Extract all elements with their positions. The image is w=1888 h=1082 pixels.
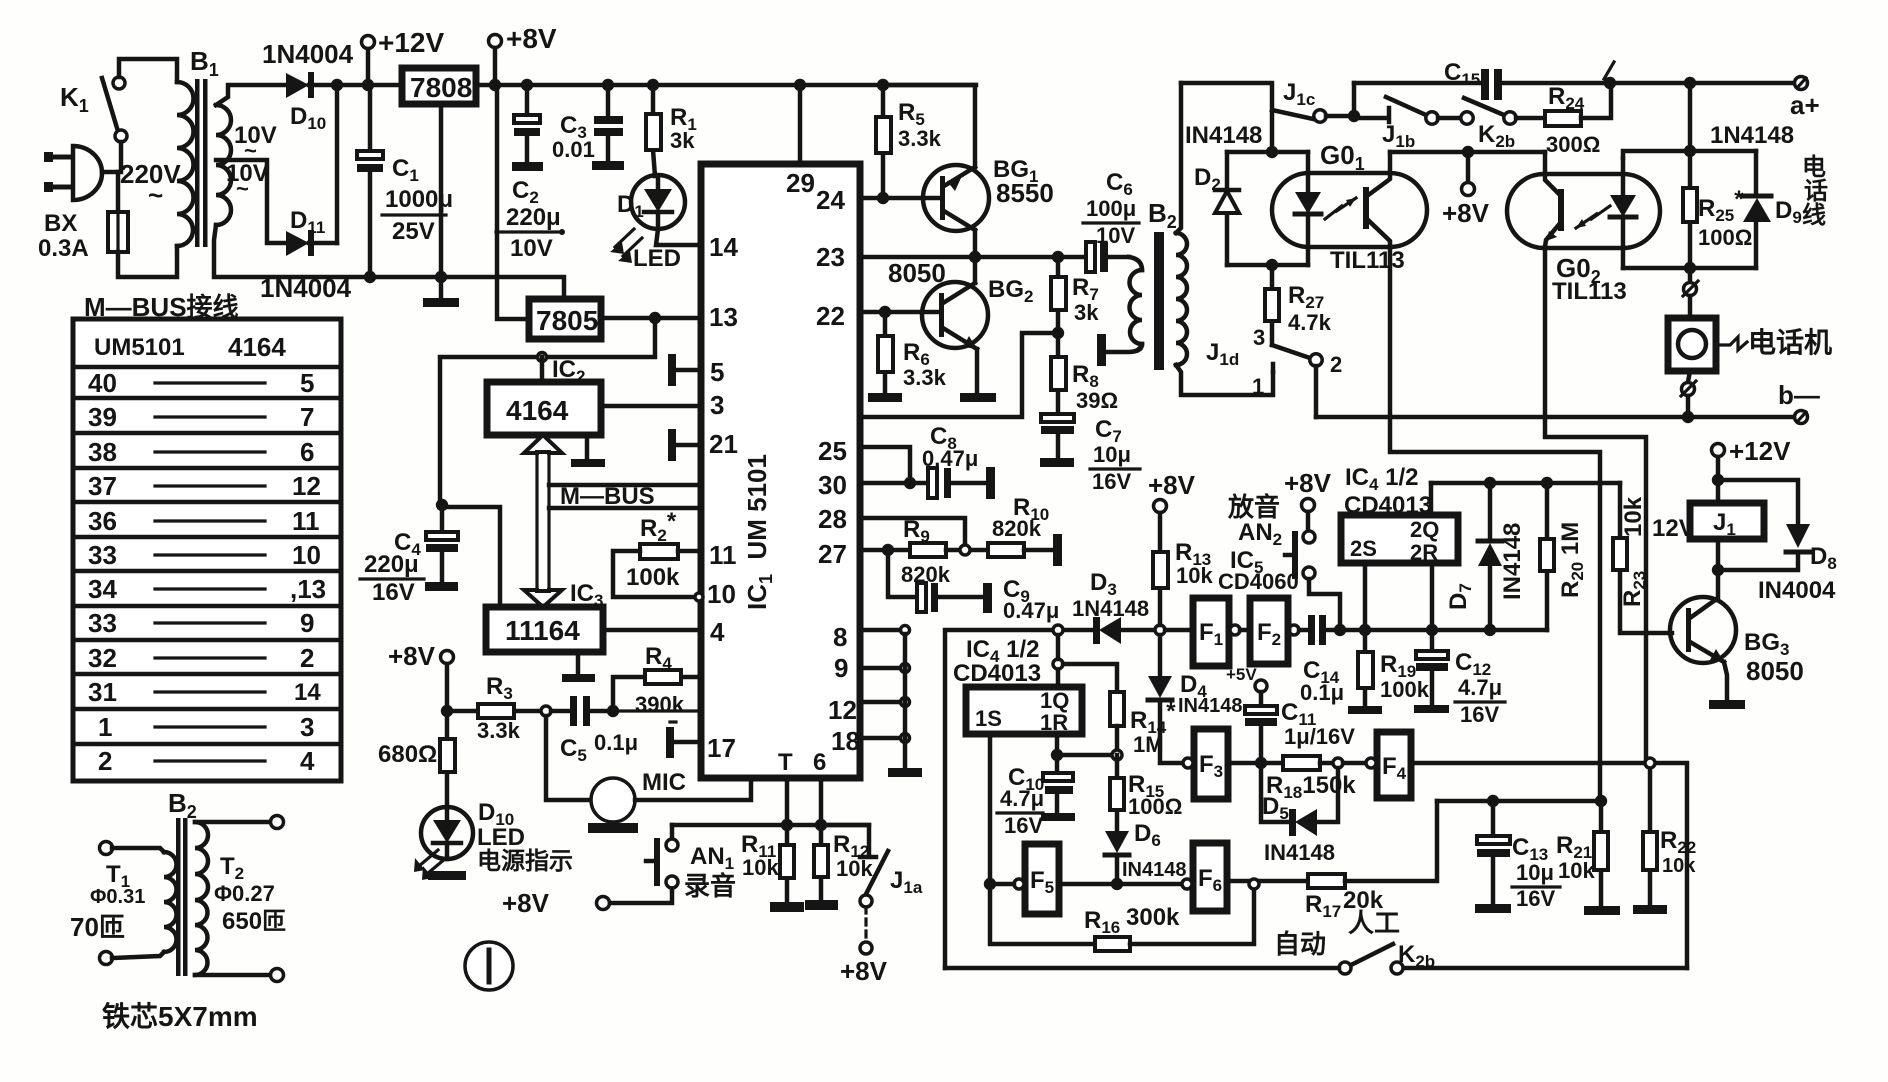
ground under 7808 bbox=[423, 104, 459, 307]
wire 1R pin down bbox=[1055, 734, 1060, 755]
svg-text:6: 6 bbox=[300, 437, 314, 467]
wire bottom rail left bbox=[945, 966, 1339, 971]
svg-text:3.3k: 3.3k bbox=[898, 126, 942, 151]
bypass bar pin 17 bbox=[666, 722, 701, 758]
svg-text:8: 8 bbox=[833, 622, 847, 652]
svg-text:32: 32 bbox=[88, 643, 117, 673]
wire R14 bottom to 1R bbox=[1057, 753, 1112, 758]
svg-text:100k: 100k bbox=[626, 564, 680, 591]
svg-text:IC4 1/2: IC4 1/2 bbox=[1345, 464, 1419, 494]
svg-text:IN4148: IN4148 bbox=[1122, 859, 1187, 881]
resistor R7 3k bbox=[1051, 257, 1099, 333]
wire D11 join D10 node bbox=[335, 85, 340, 243]
resistor R25* 100ohm bbox=[1683, 151, 1752, 268]
svg-text:人工: 人工 bbox=[1348, 908, 1400, 938]
wire 1Q to R14 bbox=[1063, 664, 1117, 692]
resistor R1 3k bbox=[646, 79, 697, 176]
transformer B1 bbox=[177, 46, 231, 247]
capacitor C15 bbox=[1444, 59, 1502, 100]
net M-BUS lower wire bbox=[549, 506, 701, 511]
resistor 680ohm bbox=[378, 711, 455, 808]
pushbutton AN2 play bbox=[1227, 468, 1332, 579]
diode D6 bbox=[1105, 820, 1187, 884]
resistor R2* 100k pins 11-10 bbox=[613, 508, 703, 601]
svg-text:7808: 7808 bbox=[410, 72, 472, 103]
junction bbox=[815, 819, 827, 831]
gate F2 bbox=[1240, 598, 1288, 664]
resistor R24 300ohm bbox=[1545, 83, 1611, 157]
wire IC2 pin3 to IC1 bbox=[601, 404, 701, 409]
junction bbox=[1712, 474, 1724, 486]
wire 7808 out to +8V node bbox=[476, 83, 527, 88]
svg-text:33: 33 bbox=[88, 608, 117, 638]
junction bbox=[1348, 110, 1360, 122]
wire BG2 collector up bbox=[973, 257, 978, 283]
svg-text:680Ω: 680Ω bbox=[378, 741, 437, 768]
diode D8 1N4004 bbox=[1718, 480, 1837, 604]
wire 1S to F5 input bbox=[990, 734, 1014, 884]
optocoupler GO2 TIL113 bbox=[1507, 152, 1660, 305]
capacitor C3 0.01 bbox=[552, 79, 624, 170]
wire pin 8 bbox=[860, 628, 900, 633]
svg-text:4.7k: 4.7k bbox=[1288, 310, 1332, 335]
wire GO2 LED top to R25 node bbox=[1623, 151, 1756, 158]
junction bbox=[649, 312, 661, 324]
transformer B2 winding detail bbox=[100, 788, 284, 982]
LED D10 power indicator bbox=[414, 799, 573, 880]
wire AN2 to C14 node bbox=[1309, 579, 1340, 630]
diode D5 bbox=[1261, 763, 1338, 865]
svg-text:Φ0.27: Φ0.27 bbox=[214, 881, 275, 906]
optocoupler GO1 TIL113 bbox=[1272, 140, 1427, 274]
wire C14 node to R20 bbox=[1365, 628, 1547, 633]
junction bbox=[331, 79, 343, 91]
svg-text:300Ω: 300Ω bbox=[1546, 132, 1600, 157]
junction bbox=[1684, 145, 1696, 157]
svg-text:4: 4 bbox=[710, 617, 725, 647]
svg-text:38: 38 bbox=[88, 437, 117, 467]
wire top line to C15 bbox=[1354, 81, 1481, 86]
svg-text:9: 9 bbox=[834, 653, 848, 683]
svg-text:300k: 300k bbox=[1126, 904, 1180, 931]
junction bbox=[1487, 795, 1499, 807]
junction bbox=[1684, 262, 1696, 274]
svg-text:650匝: 650匝 bbox=[222, 908, 286, 935]
svg-text:16V: 16V bbox=[1460, 702, 1499, 727]
wire BG2 emitter to ground bbox=[975, 349, 980, 393]
svg-text:1: 1 bbox=[1252, 374, 1264, 399]
terminal b- bbox=[1778, 380, 1820, 424]
capacitor C9 0.47u bbox=[888, 550, 1059, 623]
svg-text:8550: 8550 bbox=[996, 178, 1054, 208]
gate F1 bbox=[1193, 598, 1240, 666]
terminal +8V mic bias bbox=[388, 641, 454, 711]
wire rail to +12V node bbox=[337, 83, 400, 88]
wire up to line a bbox=[1352, 83, 1357, 116]
resistor R3 3.3k bbox=[447, 673, 540, 743]
net +8V rail opto bbox=[1390, 150, 1545, 155]
node chain pins 8-18 bbox=[901, 626, 910, 769]
wire MIC to IC1 bottom bbox=[635, 778, 751, 800]
switch J1b bbox=[1354, 97, 1461, 151]
wire C5 node to IC1 bbox=[613, 709, 701, 712]
svg-text:0.01: 0.01 bbox=[552, 137, 595, 162]
svg-text:10V: 10V bbox=[1096, 223, 1135, 248]
svg-text:37: 37 bbox=[88, 471, 117, 501]
diode D7 bbox=[1445, 483, 1526, 630]
svg-text:10k: 10k bbox=[742, 855, 779, 880]
mains plug bbox=[44, 146, 102, 200]
svg-text:10k: 10k bbox=[1662, 855, 1696, 877]
svg-text:IC1 UM 5101: IC1 UM 5101 bbox=[742, 454, 776, 610]
svg-text:+8V: +8V bbox=[388, 641, 436, 671]
ground LED bbox=[428, 871, 466, 880]
svg-text:b—: b— bbox=[1778, 380, 1820, 410]
wire D2 bottom to LED bottom bbox=[1227, 263, 1308, 268]
telephone set bbox=[1668, 296, 1832, 371]
transformer B2 coupling bbox=[1106, 198, 1187, 370]
svg-text:1N4148: 1N4148 bbox=[1710, 122, 1794, 149]
svg-text:28: 28 bbox=[818, 504, 847, 534]
svg-text:10: 10 bbox=[292, 540, 321, 570]
svg-text:~: ~ bbox=[236, 176, 249, 201]
IC3 11164 bbox=[486, 580, 603, 652]
svg-text:LED: LED bbox=[633, 245, 681, 272]
svg-text:4.7μ: 4.7μ bbox=[1000, 786, 1044, 811]
wire auto line left edge bbox=[945, 630, 1058, 968]
svg-text:~: ~ bbox=[148, 180, 163, 210]
diode D2 bbox=[1194, 152, 1239, 265]
svg-text:1N4004: 1N4004 bbox=[262, 39, 354, 69]
terminal +8V bbox=[489, 23, 557, 85]
junction bbox=[1484, 477, 1496, 489]
svg-text:2: 2 bbox=[1330, 352, 1342, 377]
resistor R23 10k bbox=[1613, 483, 1672, 633]
junction bbox=[364, 271, 376, 283]
svg-text:100Ω: 100Ω bbox=[1128, 794, 1182, 819]
svg-text:0.47μ: 0.47μ bbox=[922, 446, 978, 471]
diode D4 bbox=[1148, 635, 1243, 763]
junction bbox=[1484, 624, 1496, 636]
svg-text:自动: 自动 bbox=[1274, 929, 1326, 959]
terminal +12V relay bbox=[1712, 436, 1792, 503]
switch J1c bbox=[1272, 79, 1354, 122]
resistor R5 3.3k bbox=[876, 85, 942, 198]
svg-text:IN4148: IN4148 bbox=[1185, 122, 1262, 149]
svg-text:12: 12 bbox=[292, 471, 321, 501]
svg-text:10k: 10k bbox=[1620, 496, 1647, 537]
resistor R6 3.3k bbox=[878, 312, 947, 393]
svg-text:3: 3 bbox=[300, 712, 314, 742]
wire C15 to a+ bbox=[1502, 81, 1795, 86]
svg-text:13: 13 bbox=[709, 302, 738, 332]
junction IC2 supply bbox=[538, 353, 547, 362]
svg-text:100μ: 100μ bbox=[1086, 196, 1136, 221]
svg-text:14: 14 bbox=[709, 232, 738, 262]
terminal +5V bbox=[1226, 665, 1267, 692]
svg-text:10k: 10k bbox=[836, 856, 873, 881]
svg-text:1M: 1M bbox=[1133, 732, 1164, 757]
wire fuse to primary bottom bbox=[118, 246, 177, 277]
gate F4 bbox=[1366, 732, 1411, 798]
switch J1d bbox=[1206, 325, 1342, 399]
svg-text:IN4148: IN4148 bbox=[1178, 695, 1243, 717]
svg-text:8050: 8050 bbox=[1746, 656, 1804, 686]
wire node X left right bbox=[1227, 150, 1308, 155]
wire F5 output to F6 bbox=[1059, 882, 1183, 887]
svg-text:2Q: 2Q bbox=[1410, 517, 1439, 542]
main +8V rail bbox=[527, 83, 976, 88]
svg-text:8050: 8050 bbox=[888, 258, 946, 288]
wire GO2 emitter long down bbox=[1545, 247, 1646, 763]
resistor R12 10k bbox=[805, 825, 873, 910]
junction circle bbox=[1053, 625, 1063, 635]
connector circle slash top bbox=[1683, 268, 1698, 296]
svg-text:33: 33 bbox=[88, 540, 117, 570]
capacitor C12 4.7u 16V bbox=[1414, 630, 1505, 727]
svg-text:0.1μ: 0.1μ bbox=[1300, 680, 1344, 705]
wire R25 D9 bottom bbox=[1623, 266, 1756, 271]
svg-text:+8V: +8V bbox=[1148, 470, 1196, 500]
terminal +8V bbox=[1442, 152, 1490, 228]
junction bbox=[1682, 411, 1694, 423]
svg-text:+8V: +8V bbox=[1284, 468, 1332, 498]
svg-text:2: 2 bbox=[98, 746, 112, 776]
wire pin 6 down bbox=[819, 778, 824, 825]
IC U4a CD4013 half bbox=[953, 636, 1082, 735]
wire pin 18 bbox=[860, 736, 900, 741]
svg-text:4.7μ: 4.7μ bbox=[1458, 675, 1502, 700]
resistor R21 10k bbox=[1556, 801, 1620, 915]
svg-text:5: 5 bbox=[710, 357, 724, 387]
wire D1 to pin14 bbox=[656, 229, 701, 245]
gate F5 bbox=[1014, 844, 1059, 914]
net M-BUS upper wire bbox=[549, 483, 701, 488]
svg-text:10: 10 bbox=[707, 579, 736, 609]
svg-text:100k: 100k bbox=[1380, 677, 1430, 702]
svg-text:0.3A: 0.3A bbox=[38, 235, 89, 262]
capacitor C1 1000u 25V bbox=[357, 85, 453, 277]
wire secondary mid tap to D11 bbox=[216, 160, 286, 243]
diode D11 1N4004 bbox=[260, 207, 352, 303]
switch K2b manual-auto bbox=[1274, 908, 1435, 974]
wire secondary top tap bbox=[216, 85, 284, 105]
capacitor C10 4.7u 16V bbox=[997, 755, 1075, 838]
wire K1 top to B1 primary bbox=[119, 59, 177, 82]
wire relay bottom bbox=[1716, 539, 1721, 570]
capacitor C2 220u 10V bbox=[496, 79, 565, 262]
svg-text:34: 34 bbox=[88, 574, 117, 604]
svg-text:4164: 4164 bbox=[228, 332, 286, 362]
wire J1d-2 down to b- rail bbox=[1314, 366, 1319, 417]
terminal a+ bbox=[1790, 77, 1820, 121]
ground BG2 bbox=[960, 393, 996, 402]
wire C13 R21 node rail bbox=[1437, 799, 1601, 804]
svg-text:+8V: +8V bbox=[840, 956, 888, 986]
junction circle bbox=[1249, 879, 1259, 889]
relay coil J1 bbox=[1652, 503, 1764, 542]
svg-text:25: 25 bbox=[818, 436, 847, 466]
wire F6 out to R17 bbox=[1227, 879, 1305, 884]
svg-text:1μ/16V: 1μ/16V bbox=[1284, 724, 1355, 749]
resistor R14* 1M bbox=[1110, 692, 1176, 757]
capacitor C7 10u 16V bbox=[1040, 414, 1140, 494]
gate F6 bbox=[1182, 843, 1227, 911]
svg-text:放音: 放音 bbox=[1227, 492, 1280, 522]
junction bbox=[879, 306, 891, 318]
svg-text:16V: 16V bbox=[1092, 469, 1131, 494]
svg-text:R20 1M: R20 1M bbox=[1557, 522, 1587, 598]
resistor R4 390k bbox=[613, 643, 701, 717]
wire B2 secondary bottom to J1d-1 bbox=[1176, 365, 1273, 395]
svg-text:3: 3 bbox=[1253, 325, 1265, 350]
junction bbox=[1462, 146, 1474, 158]
svg-text:6: 6 bbox=[813, 749, 826, 776]
resistor R15 100ohm bbox=[1110, 755, 1182, 831]
svg-text:0.1μ: 0.1μ bbox=[594, 730, 638, 755]
svg-text:22: 22 bbox=[816, 301, 845, 331]
svg-text:3.3k: 3.3k bbox=[477, 718, 521, 743]
wire secondary bottom to ground rail bbox=[214, 225, 564, 297]
wire IC2 supply stub bbox=[540, 357, 545, 382]
wire C4 node to IC3 bbox=[442, 507, 500, 607]
junction bbox=[1111, 878, 1123, 890]
svg-text:10k: 10k bbox=[1176, 563, 1213, 588]
wire pin24 to BG1 base bbox=[860, 196, 941, 201]
svg-text:T: T bbox=[778, 749, 793, 776]
svg-text:+8V: +8V bbox=[502, 888, 550, 918]
gate F3 bbox=[1183, 729, 1228, 799]
junction bbox=[1541, 477, 1553, 489]
junction bbox=[877, 192, 889, 204]
svg-text:3: 3 bbox=[710, 390, 724, 420]
svg-text:+8V: +8V bbox=[1442, 198, 1490, 228]
svg-text:线: 线 bbox=[1802, 202, 1826, 229]
svg-text:4: 4 bbox=[300, 746, 315, 776]
svg-text:IN4004: IN4004 bbox=[1758, 577, 1836, 604]
resistor R10 820k bbox=[988, 494, 1062, 566]
svg-text:390k: 390k bbox=[635, 692, 685, 717]
wire pin T down bbox=[785, 778, 790, 825]
node X D2 GO1 top bbox=[1266, 146, 1278, 158]
junction bbox=[1051, 749, 1063, 761]
svg-text:16V: 16V bbox=[1516, 886, 1555, 911]
svg-text:1: 1 bbox=[98, 712, 112, 742]
junction bbox=[1052, 251, 1064, 263]
junction R5 bbox=[877, 79, 889, 91]
wire pin 9 bbox=[860, 666, 900, 671]
junction a+ node bbox=[1684, 77, 1696, 89]
svg-text:29: 29 bbox=[786, 168, 815, 198]
svg-text:21: 21 bbox=[709, 429, 738, 459]
svg-text:10k: 10k bbox=[1558, 858, 1595, 883]
junction bbox=[1426, 624, 1438, 636]
svg-text:话: 话 bbox=[1804, 178, 1828, 205]
svg-text:11: 11 bbox=[292, 506, 320, 536]
wire J1c branch from B2 bbox=[1181, 83, 1272, 152]
switch K1 bbox=[60, 77, 127, 142]
svg-text:10μ: 10μ bbox=[1093, 442, 1131, 467]
wire BG1 collector down bbox=[973, 230, 978, 257]
svg-text:40: 40 bbox=[88, 368, 117, 398]
svg-text:100Ω: 100Ω bbox=[1698, 225, 1752, 250]
svg-text:电话机: 电话机 bbox=[1748, 327, 1832, 358]
svg-text:7805: 7805 bbox=[536, 305, 598, 336]
wire +8V down to 7805 bbox=[497, 85, 528, 319]
svg-text:7: 7 bbox=[300, 402, 314, 432]
ground IC3 bbox=[562, 652, 595, 682]
capacitor C13 10u 16V bbox=[1475, 801, 1560, 913]
svg-text:16V: 16V bbox=[372, 579, 415, 606]
transistor Q BG3 8050 bbox=[1670, 570, 1804, 700]
terminal +12V bbox=[362, 27, 445, 85]
wire 2R pin down bbox=[1430, 563, 1435, 630]
net 2Q rail bbox=[1431, 481, 1620, 486]
svg-text:+12V: +12V bbox=[1729, 436, 1791, 466]
wire 2Q stub up bbox=[1429, 483, 1434, 515]
junction circle R22 tap bbox=[1645, 758, 1655, 768]
wire B2 secondary top bbox=[1176, 83, 1181, 233]
resistor R16 300k bbox=[990, 884, 1254, 951]
regulator 7808 bbox=[402, 68, 476, 104]
svg-text:铁芯5X7mm: 铁芯5X7mm bbox=[102, 1001, 258, 1032]
diode D10 1N4004 bbox=[262, 39, 354, 133]
junction bbox=[1712, 564, 1724, 576]
switch J1a bbox=[821, 825, 923, 907]
svg-text:14: 14 bbox=[294, 679, 321, 706]
junction bbox=[984, 878, 996, 890]
svg-text:5: 5 bbox=[300, 368, 314, 398]
figure mark circled 1 bbox=[465, 942, 513, 990]
wire rail to BG1 emitter bbox=[883, 85, 975, 167]
capacitor C5 0.1u bbox=[541, 696, 638, 765]
svg-text:1N4148: 1N4148 bbox=[1072, 596, 1149, 621]
svg-text:BX: BX bbox=[44, 210, 77, 237]
svg-text:CD4060: CD4060 bbox=[1218, 569, 1299, 594]
IC U4b CD4013 half bbox=[1341, 464, 1458, 565]
svg-text:39Ω: 39Ω bbox=[1076, 388, 1118, 413]
junction bbox=[441, 705, 453, 717]
svg-text:9: 9 bbox=[300, 608, 314, 638]
junction with slash bbox=[1604, 62, 1616, 89]
wire IC3 to IC1 pin4 bbox=[603, 628, 701, 633]
junction bbox=[969, 251, 981, 263]
switch K2b line bbox=[1461, 98, 1545, 151]
wire 7805 out to IC1 pin13 bbox=[601, 316, 701, 321]
svg-text:10μ: 10μ bbox=[1516, 860, 1554, 885]
wire pin 12 bbox=[860, 700, 900, 705]
svg-text:70匝: 70匝 bbox=[70, 912, 125, 942]
svg-text:27: 27 bbox=[818, 539, 847, 569]
wire AN1 T node bbox=[672, 823, 869, 828]
LED D1 bbox=[610, 175, 685, 272]
svg-text:4164: 4164 bbox=[506, 395, 569, 426]
junction bbox=[1595, 795, 1607, 807]
ground IC2 bbox=[571, 435, 605, 467]
wire D3 node to F1 bbox=[1165, 628, 1193, 633]
wire GO1 emitter long down bbox=[1390, 247, 1600, 801]
svg-text:11: 11 bbox=[709, 540, 737, 570]
bus arrow IC2-IC3 bbox=[524, 435, 562, 607]
resistor R19 100k bbox=[1348, 630, 1430, 714]
wire pin28 bbox=[860, 518, 965, 550]
svg-text:12: 12 bbox=[828, 695, 857, 725]
svg-text:3k: 3k bbox=[670, 128, 695, 153]
bypass bar pin 5 bbox=[668, 354, 701, 386]
svg-text:UM5101: UM5101 bbox=[94, 334, 185, 361]
IC2 4164 bbox=[487, 356, 601, 435]
microphone MIC bbox=[546, 716, 686, 833]
